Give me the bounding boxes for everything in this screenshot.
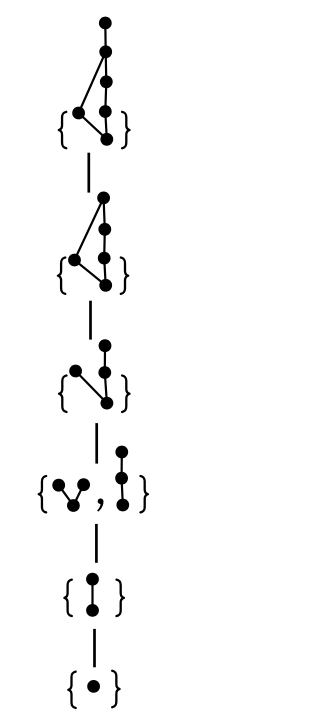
edge L2-B2: [75, 260, 106, 285]
right brace row3: [122, 376, 129, 412]
edge P4-R4: [59, 485, 74, 505]
node M2b: [98, 252, 111, 265]
connector row4-row5: [95, 524, 98, 563]
connector row1-row2: [87, 153, 90, 193]
edge D1-E1: [105, 112, 107, 140]
comma separator row4: [97, 499, 103, 512]
edge C1-D1: [105, 82, 106, 112]
node P4: [52, 479, 65, 492]
edge X5-Y5: [91, 579, 93, 610]
right brace row6: [112, 671, 119, 707]
node B2: [99, 279, 112, 292]
node U4: [115, 446, 128, 459]
right brace row4: [141, 476, 148, 512]
node Z6: [87, 680, 100, 693]
edge L3-B3: [76, 371, 107, 403]
left brace row2: [58, 258, 65, 294]
node R4: [67, 499, 80, 512]
connector row3-row4: [95, 423, 98, 464]
right brace row1: [122, 112, 129, 148]
edge L1-E1: [79, 113, 107, 139]
edge B1-C1: [105, 52, 108, 82]
node Y5: [86, 604, 99, 617]
node V4: [115, 472, 128, 485]
left brace row1: [59, 112, 66, 148]
connector row5-row6: [93, 629, 96, 667]
node T2: [97, 192, 110, 205]
node B1: [99, 45, 112, 58]
right brace row2: [121, 258, 128, 294]
node A1: [99, 17, 112, 30]
node T3: [99, 339, 112, 352]
node X5: [86, 573, 99, 586]
node Q4: [77, 478, 90, 491]
edge T2-M2a: [104, 198, 105, 229]
node M3: [98, 366, 111, 379]
node M2a: [98, 223, 111, 236]
edge M3-B3: [105, 373, 107, 404]
edge B1-L1: [79, 52, 106, 113]
edge T2-L2: [75, 198, 104, 260]
node L1: [72, 107, 85, 120]
node C1: [100, 75, 113, 88]
edge M2a-M2b: [103, 229, 106, 258]
node W4: [116, 499, 129, 512]
left brace row4: [39, 476, 46, 512]
node E1: [100, 133, 113, 146]
right brace row5: [117, 580, 124, 616]
edge M2b-B2: [104, 258, 106, 285]
edge A1-B1: [104, 23, 107, 52]
edge U4-V4: [120, 452, 122, 478]
left brace row5: [64, 580, 71, 616]
node D1: [99, 105, 112, 118]
edge Q4-R4: [73, 485, 83, 506]
connector row2-row3: [89, 301, 92, 340]
left brace row3: [59, 376, 66, 412]
edge V4-W4: [122, 478, 123, 505]
left brace row6: [68, 672, 75, 708]
node L2: [68, 254, 81, 267]
node L3: [69, 365, 82, 378]
node B3: [101, 397, 114, 410]
edge T3-M3: [104, 346, 106, 373]
